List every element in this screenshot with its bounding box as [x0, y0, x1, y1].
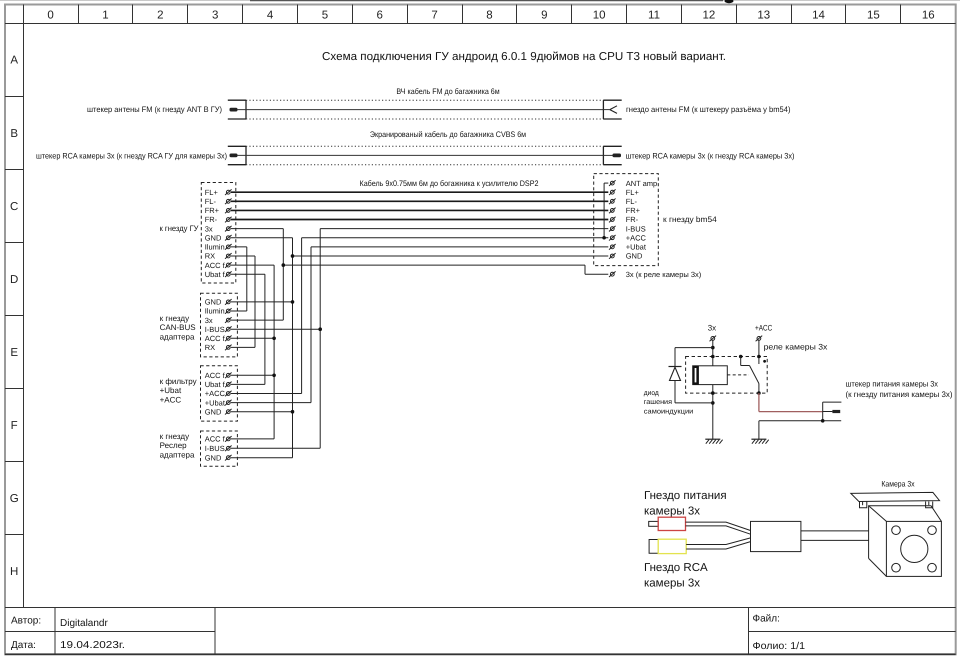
svg-text:Гнездо RCA: Гнездо RCA	[644, 562, 708, 574]
svg-text:Автор:: Автор:	[11, 616, 41, 627]
svg-text:к гнезду bm54: к гнезду bm54	[663, 215, 717, 224]
svg-text:FL-: FL-	[626, 197, 638, 206]
svg-text:Ilumin: Ilumin	[205, 243, 225, 252]
svg-text:RX: RX	[205, 343, 215, 352]
svg-text:Камера 3х: Камера 3х	[881, 480, 914, 489]
svg-text:+ACC: +ACC	[205, 389, 226, 398]
svg-text:ACC f: ACC f	[205, 371, 226, 380]
svg-text:Файл:: Файл:	[753, 614, 780, 625]
svg-text:диод: диод	[644, 390, 659, 397]
svg-text:+Ubat: +Ubat	[160, 386, 182, 395]
svg-text:Реслер: Реслер	[160, 441, 188, 450]
svg-text:Дата:: Дата:	[11, 640, 36, 651]
svg-text:11: 11	[648, 9, 660, 21]
svg-text:штекер питания камеры 3х: штекер питания камеры 3х	[846, 379, 939, 388]
svg-text:G: G	[10, 493, 19, 505]
svg-text:3х (к реле камеры 3х): 3х (к реле камеры 3х)	[626, 270, 702, 279]
svg-text:штекер RCA камеры 3х (к гнезду: штекер RCA камеры 3х (к гнезду RCA ГУ дл…	[36, 151, 227, 160]
svg-text:Кабель 9х0.75мм 6м до богажник: Кабель 9х0.75мм 6м до богажника к усилит…	[360, 179, 539, 188]
svg-text:3х: 3х	[205, 224, 213, 233]
svg-text:A: A	[10, 55, 18, 67]
svg-text:к гнезду ГУ: к гнезду ГУ	[160, 224, 200, 233]
svg-text:GND: GND	[205, 233, 222, 242]
svg-text:самоиндукции: самоиндукции	[644, 409, 694, 416]
svg-text:7: 7	[431, 9, 437, 21]
svg-text:FR-: FR-	[205, 215, 218, 224]
svg-text:13: 13	[757, 9, 770, 21]
svg-text:Схема подключения ГУ андроид 6: Схема подключения ГУ андроид 6.0.1 9дюйм…	[322, 51, 726, 63]
svg-text:штекер антены FM (к гнезду ANT: штекер антены FM (к гнезду ANT В ГУ)	[87, 105, 222, 114]
svg-text:ANT amp: ANT amp	[626, 179, 658, 188]
svg-text:Ilumin: Ilumin	[205, 307, 225, 316]
svg-text:гнездо антены FM (к штекеру ра: гнездо антены FM (к штекеру разъёма у bm…	[626, 105, 791, 114]
svg-text:+ACC: +ACC	[626, 233, 647, 242]
svg-text:FR+: FR+	[205, 206, 220, 215]
svg-text:19.04.2023г.: 19.04.2023г.	[60, 640, 125, 651]
svg-text:2: 2	[157, 9, 163, 21]
svg-text:9: 9	[541, 9, 547, 21]
svg-text:GND: GND	[205, 453, 222, 462]
svg-text:ACC f: ACC f	[205, 435, 226, 444]
svg-text:1: 1	[102, 9, 108, 21]
svg-text:GND: GND	[205, 407, 222, 416]
svg-text:адаптера: адаптера	[160, 332, 195, 341]
svg-text:Фолио: 1/1: Фолио: 1/1	[753, 641, 806, 652]
svg-text:8: 8	[486, 9, 492, 21]
svg-text:CAN-BUS: CAN-BUS	[160, 323, 196, 332]
svg-text:FL-: FL-	[205, 197, 217, 206]
svg-text:14: 14	[812, 9, 825, 21]
svg-text:ВЧ кабель FM до багажника 6м: ВЧ кабель FM до багажника 6м	[396, 87, 499, 96]
svg-text:FR+: FR+	[626, 206, 641, 215]
svg-text:+Ubat: +Ubat	[205, 398, 226, 407]
svg-text:GND: GND	[205, 298, 222, 307]
svg-text:5: 5	[322, 9, 328, 21]
svg-text:C: C	[10, 201, 18, 213]
svg-text:FL+: FL+	[205, 188, 219, 197]
svg-text:E: E	[10, 347, 18, 359]
svg-text:ACC f: ACC f	[205, 261, 226, 270]
svg-text:Digitalandr: Digitalandr	[60, 618, 108, 629]
svg-text:Гнездо питания: Гнездо питания	[644, 490, 727, 502]
svg-text:RX: RX	[205, 252, 215, 261]
svg-text:D: D	[10, 274, 18, 286]
svg-text:ACC f: ACC f	[205, 334, 226, 343]
svg-text:4: 4	[267, 9, 274, 21]
svg-text:реле камеры 3х: реле камеры 3х	[764, 343, 828, 352]
svg-text:GND: GND	[626, 252, 643, 261]
svg-text:B: B	[10, 128, 18, 140]
svg-text:3: 3	[212, 9, 218, 21]
svg-text:к гнезду: к гнезду	[160, 314, 190, 323]
svg-text:камеры 3х: камеры 3х	[644, 505, 700, 517]
svg-text:к фильтру: к фильтру	[160, 377, 197, 386]
svg-text:адаптера: адаптера	[160, 451, 195, 460]
svg-text:15: 15	[867, 9, 880, 21]
svg-text:16: 16	[922, 9, 935, 21]
svg-text:штекер RCA камеры 3х (к гнезду: штекер RCA камеры 3х (к гнезду RCA камер…	[626, 151, 795, 160]
svg-text:гашения: гашения	[644, 399, 672, 406]
svg-text:H: H	[10, 566, 18, 578]
svg-text:I-BUS: I-BUS	[626, 224, 646, 233]
svg-text:3х: 3х	[205, 316, 213, 325]
svg-text:Экранированый кабель до багажн: Экранированый кабель до багажника CVBS 6…	[370, 130, 526, 139]
svg-text:I-BUS: I-BUS	[205, 444, 225, 453]
svg-text:I-BUS: I-BUS	[205, 325, 225, 334]
svg-text:к гнезду: к гнезду	[160, 432, 190, 441]
svg-text:Ubat f: Ubat f	[205, 270, 226, 279]
svg-text:(к гнезду питания камеры 3х): (к гнезду питания камеры 3х)	[846, 390, 953, 399]
svg-text:+Ubat: +Ubat	[626, 243, 647, 252]
svg-text:3х: 3х	[708, 324, 716, 333]
svg-text:10: 10	[593, 9, 606, 21]
svg-text:Ubat f: Ubat f	[205, 380, 226, 389]
svg-text:F: F	[11, 420, 18, 432]
svg-text:камеры 3х: камеры 3х	[644, 577, 700, 589]
svg-text:+ACC: +ACC	[755, 324, 772, 333]
svg-text:0: 0	[47, 9, 53, 21]
svg-text:6: 6	[377, 9, 383, 21]
svg-text:FL+: FL+	[626, 188, 640, 197]
svg-text:FR-: FR-	[626, 215, 639, 224]
svg-text:+ACC: +ACC	[160, 395, 182, 404]
svg-text:12: 12	[702, 9, 715, 21]
